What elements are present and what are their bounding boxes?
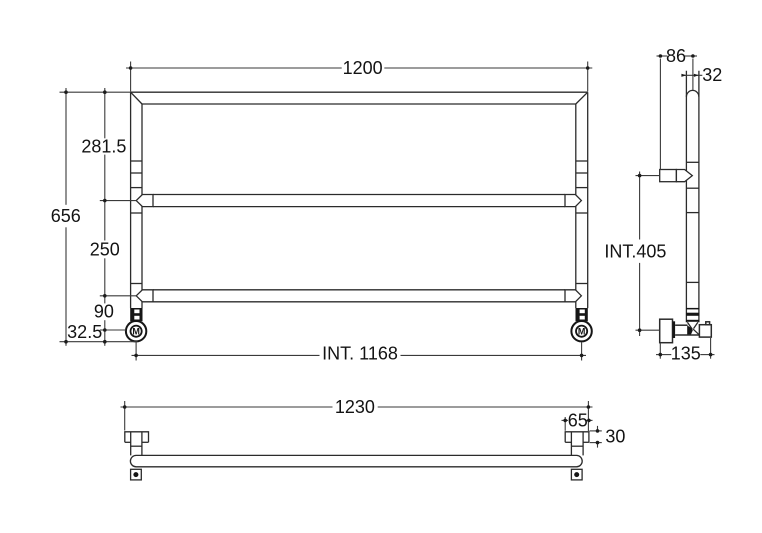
- front view: upper bar left arrow ferrule: [136, 195, 153, 207]
- dim arrows front view: [64, 66, 589, 357]
- front view: right ribbed union collar: [576, 308, 588, 321]
- side view: flange collar dark bar: [673, 321, 676, 338]
- dim 86: dimension line: [657, 55, 668, 57]
- bottom view: left bracket plate top and sides: [125, 432, 149, 443]
- dim 32: dimension line: [683, 74, 703, 76]
- side view dimensions: [636, 56, 715, 359]
- dim INT.405: bottom extension line: [636, 329, 660, 331]
- front view: right wall valve inner circle: [576, 326, 587, 337]
- front view: left wall valve outer circle: [126, 321, 146, 341]
- bottom view: right screw plate: [571, 469, 582, 480]
- dim 86: left extension line down to bracket: [659, 59, 661, 170]
- dim 135: left extension line: [659, 344, 661, 359]
- front view: right tube joint line 1: [576, 160, 588, 162]
- dim 656: top extension line: [60, 91, 131, 93]
- side view: tube joint line 3: [686, 212, 699, 214]
- bottom view: right bracket plate bottom (ears only): [565, 441, 571, 443]
- dim INT.405: top extension line: [636, 175, 660, 177]
- dim 1230: left extension line: [124, 401, 126, 431]
- side view: taper right line: [694, 322, 698, 328]
- side view: valve body: [699, 325, 711, 337]
- bottom view dimensions: [121, 401, 602, 448]
- bottom view: left bracket column joint: [131, 445, 142, 447]
- front view: right tube joint line 3: [576, 187, 588, 189]
- dim 1200: right extension line: [587, 62, 589, 92]
- front view: right tube outer wall: [587, 92, 589, 308]
- front view: left tube inner wall: [141, 104, 143, 308]
- front view: left wall valve inner circle: [131, 326, 142, 337]
- extension line at valve centre level: [100, 329, 126, 331]
- svg-text:135: 135: [671, 343, 701, 363]
- dim 86: right extension line down to tube: [692, 59, 694, 91]
- svg-text:32.5: 32.5: [67, 322, 102, 342]
- dim 281.5 / 250 / 90 / 32.5 vertical dimension line: [104, 88, 106, 138]
- dim 135: right extension line: [710, 338, 712, 359]
- dim 65: dimension line: [562, 419, 569, 421]
- dim 65: left extension line: [564, 417, 566, 431]
- front view: left valve neck lines: [134, 321, 139, 324]
- bottom view: left screw plate: [131, 469, 142, 480]
- side view: wall flange plate: [660, 319, 673, 343]
- svg-text:250: 250: [90, 239, 120, 259]
- svg-text:656: 656: [51, 206, 81, 226]
- side view: tube joint line 4: [686, 281, 699, 283]
- bottom view: left bracket column left wall: [130, 432, 132, 456]
- side view: tube right wall: [698, 71, 700, 323]
- svg-text:30: 30: [605, 427, 625, 447]
- front view: upper towel bar bottom line: [153, 206, 565, 208]
- dim INT. 1168: right extension line: [581, 342, 583, 360]
- side view: dark junction block: [687, 325, 693, 334]
- dim INT. 1168: dimension line: [132, 354, 320, 356]
- svg-text:65: 65: [568, 410, 588, 430]
- front view: lower towel bar bottom line: [153, 301, 565, 303]
- front view: lower towel bar top line: [153, 289, 565, 291]
- front view: top-left chamfer joint: [131, 92, 142, 104]
- svg-text:M: M: [132, 327, 140, 337]
- dim 30: bottom line: [590, 442, 602, 444]
- svg-text:M: M: [578, 327, 586, 337]
- svg-text:1200: 1200: [343, 58, 383, 78]
- dim 1200: left extension line: [130, 62, 132, 92]
- front view: top-right chamfer joint: [576, 92, 588, 104]
- extension line at lower bar level: [100, 295, 136, 297]
- svg-text:32: 32: [702, 65, 722, 85]
- front view: right tube joint line 2: [576, 172, 588, 174]
- dim 30: top arrow stub: [597, 426, 599, 431]
- dim 656: bottom extension line: [60, 341, 138, 343]
- side view: wall bracket arrow ferrule: [676, 170, 692, 182]
- bottom view: left bracket plate bottom (ears only): [125, 441, 131, 443]
- front view: lower bar right arrow ferrule: [565, 290, 581, 302]
- front view: upper bar right arrow ferrule: [565, 195, 581, 207]
- front view: right tube joint line 4: [576, 212, 588, 214]
- front view: top rail inner line: [142, 103, 576, 105]
- svg-text:281.5: 281.5: [81, 137, 126, 157]
- front view: right valve neck lines: [580, 321, 585, 324]
- side view: horizontal pipe top line: [675, 324, 687, 326]
- front view: left tube outer wall: [130, 92, 132, 308]
- side view: tube left wall: [685, 71, 687, 323]
- front view: right wall valve outer circle: [571, 321, 591, 341]
- extension line at upper bar level: [100, 200, 136, 202]
- bottom view: left screw dot: [133, 472, 138, 477]
- side view: valve knob: [706, 322, 710, 325]
- front view: left ribbed union collar: [130, 308, 142, 321]
- side view: taper left line: [687, 322, 692, 329]
- dim 1200: dimension line: [126, 67, 342, 69]
- side view: tube joint line 2: [686, 187, 699, 189]
- front view: top rail outer line: [131, 91, 588, 93]
- side view: ribbed collar band 2: [686, 313, 699, 316]
- dim 30: bottom arrow stub: [597, 443, 599, 448]
- side view: tube bend dome: [686, 90, 699, 96]
- side view: junction diagonal to valve: [693, 329, 699, 335]
- side view: horizontal pipe bottom line: [675, 334, 699, 336]
- front view: right tube joint line 5: [576, 283, 588, 285]
- front view: upper towel bar top line: [153, 194, 565, 196]
- front view: left tube joint line 2: [131, 172, 142, 174]
- svg-text:INT.405: INT.405: [604, 242, 666, 262]
- front view: left tube joint line 5: [131, 283, 142, 285]
- side view: tube joint line 1: [686, 161, 699, 163]
- side view dim arrows: [638, 54, 713, 356]
- svg-text:90: 90: [94, 302, 114, 322]
- dim INT.405: dimension line: [639, 172, 641, 240]
- side view: ribbed collar band 3: [686, 320, 699, 322]
- bottom view: left bracket column right wall: [141, 432, 143, 456]
- svg-text:86: 86: [666, 46, 686, 66]
- bottom view: right bracket column left wall: [570, 432, 572, 456]
- dim 1230: dimension line: [121, 406, 333, 408]
- side view: wall bracket body: [660, 170, 677, 182]
- front view: left tube joint line 1: [131, 160, 142, 162]
- svg-text:INT. 1168: INT. 1168: [322, 344, 398, 364]
- dim 30: top line: [590, 430, 602, 432]
- bottom view: right bracket plate top and sides: [565, 432, 589, 443]
- front view: right tube inner wall: [575, 104, 577, 308]
- dim 1230: right extension line: [587, 401, 589, 431]
- front view: left tube joint line 3: [131, 187, 142, 189]
- bottom view: right bracket column joint: [571, 445, 583, 447]
- side view: ribbed collar band 1: [686, 308, 699, 322]
- front view: left tube joint line 4: [131, 212, 142, 214]
- bottom view: right bracket column right wall: [582, 432, 584, 456]
- svg-text:1230: 1230: [335, 397, 375, 417]
- front view: lower bar left arrow ferrule: [136, 290, 153, 302]
- dim INT. 1168: left extension line: [135, 342, 137, 360]
- bottom view dim arrows: [123, 405, 599, 444]
- bottom view: towel rail tube with rounded ends: [130, 455, 582, 466]
- dim 135: dimension line: [656, 354, 671, 356]
- bottom view: right screw dot: [574, 472, 579, 477]
- dim 656: dimension line: [65, 88, 67, 205]
